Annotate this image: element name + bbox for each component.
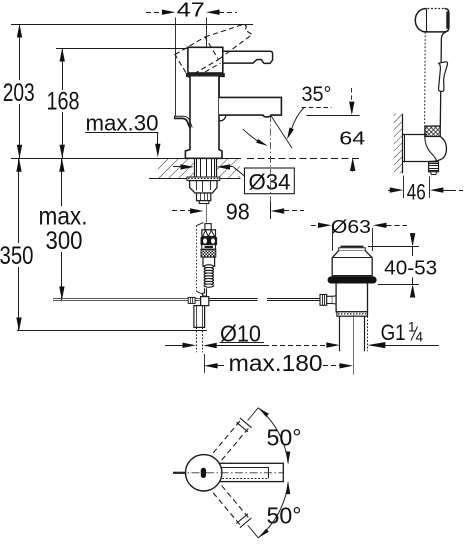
- svg-text:40-53: 40-53: [384, 256, 437, 279]
- svg-text:168: 168: [47, 88, 80, 116]
- svg-text:Ø34: Ø34: [249, 169, 291, 194]
- svg-text:98: 98: [226, 199, 250, 225]
- svg-text:max.180: max.180: [229, 350, 323, 376]
- svg-text:46: 46: [407, 179, 426, 204]
- svg-text:G1: G1: [381, 320, 406, 345]
- svg-text:203: 203: [3, 79, 35, 107]
- svg-text:50°: 50°: [267, 425, 302, 451]
- svg-text:50°: 50°: [267, 503, 302, 529]
- svg-text:4: 4: [416, 330, 424, 345]
- svg-text:47: 47: [177, 0, 205, 22]
- svg-text:350: 350: [0, 242, 34, 270]
- svg-text:max.30: max.30: [86, 111, 159, 136]
- svg-text:300: 300: [46, 227, 83, 255]
- svg-text:35°: 35°: [302, 83, 332, 106]
- svg-text:64: 64: [339, 127, 365, 148]
- svg-text:Ø63: Ø63: [331, 216, 371, 237]
